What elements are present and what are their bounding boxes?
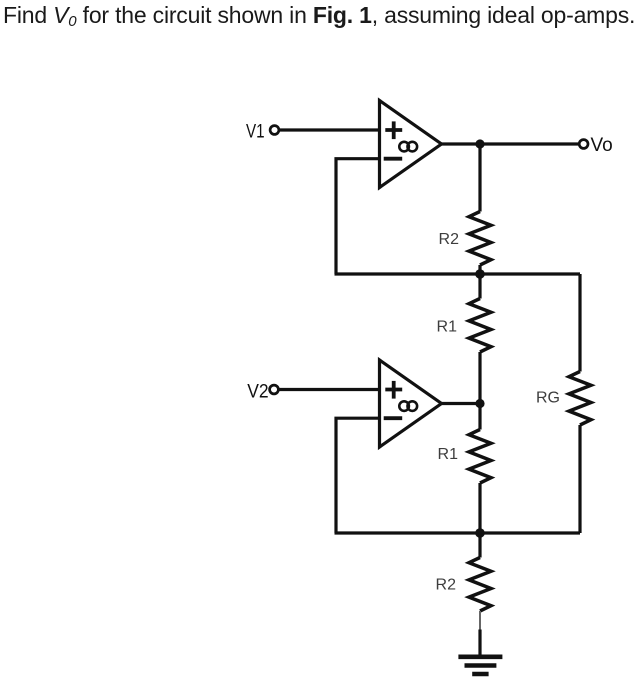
wire junction down to R2 top — [478, 144, 481, 212]
op-amp U1 — [380, 101, 442, 188]
wire feedback U2 (minus input to bottom bus) — [336, 418, 380, 533]
wire R1 lower bottom to bottom bus — [478, 483, 481, 533]
svg-text:R2: R2 — [439, 231, 460, 248]
svg-text:R1: R1 — [437, 319, 458, 336]
terminal V2 — [270, 385, 279, 394]
wire V2 to U2 + input — [278, 388, 380, 391]
wire U1 output to Vo — [442, 142, 580, 145]
wire horizontal bus (node B) — [335, 272, 581, 275]
svg-text:V2: V2 — [247, 381, 268, 402]
wire node C down to R1 lower top — [478, 404, 481, 430]
terminal V1 — [270, 126, 279, 135]
resistor RG — [569, 372, 591, 426]
wire lead to ground — [478, 630, 481, 657]
node B junction dot — [475, 269, 485, 279]
svg-text:RG: RG — [536, 389, 560, 406]
wire V1 to U1 + input — [279, 128, 380, 131]
wire bottom bus (node D) — [335, 531, 581, 534]
wire U2 output to node C — [442, 402, 481, 405]
node D junction dot — [475, 528, 485, 538]
wire RG bottom to bottom bus — [578, 425, 581, 533]
svg-text:R1: R1 — [438, 446, 459, 463]
resistor R2 (bottom) — [469, 558, 491, 612]
op-amp U2 — [380, 360, 442, 447]
wire R1 bottom to U2 output node — [478, 352, 481, 404]
resistor R1 (lower) — [469, 430, 491, 484]
wire R2 bottom thin lead — [479, 611, 481, 630]
wire feedback U1 (minus input to bus) — [336, 159, 380, 274]
wire R2 bottom to bus — [478, 265, 481, 274]
svg-text:R2: R2 — [436, 576, 457, 593]
wire node D down to R2 bottom — [478, 533, 481, 558]
svg-text:V1: V1 — [246, 121, 265, 142]
resistor R1 (upper) — [469, 299, 491, 353]
node: U1 output junction — [475, 139, 484, 148]
svg-text:Vo: Vo — [591, 135, 613, 156]
wire bus down to R1 top — [478, 274, 481, 299]
resistor R2 (top) — [469, 212, 491, 266]
ground — [458, 657, 502, 674]
terminal Vo — [579, 140, 588, 149]
node C junction dot — [475, 399, 484, 408]
wire RG branch from top bus down to RG — [578, 274, 581, 372]
